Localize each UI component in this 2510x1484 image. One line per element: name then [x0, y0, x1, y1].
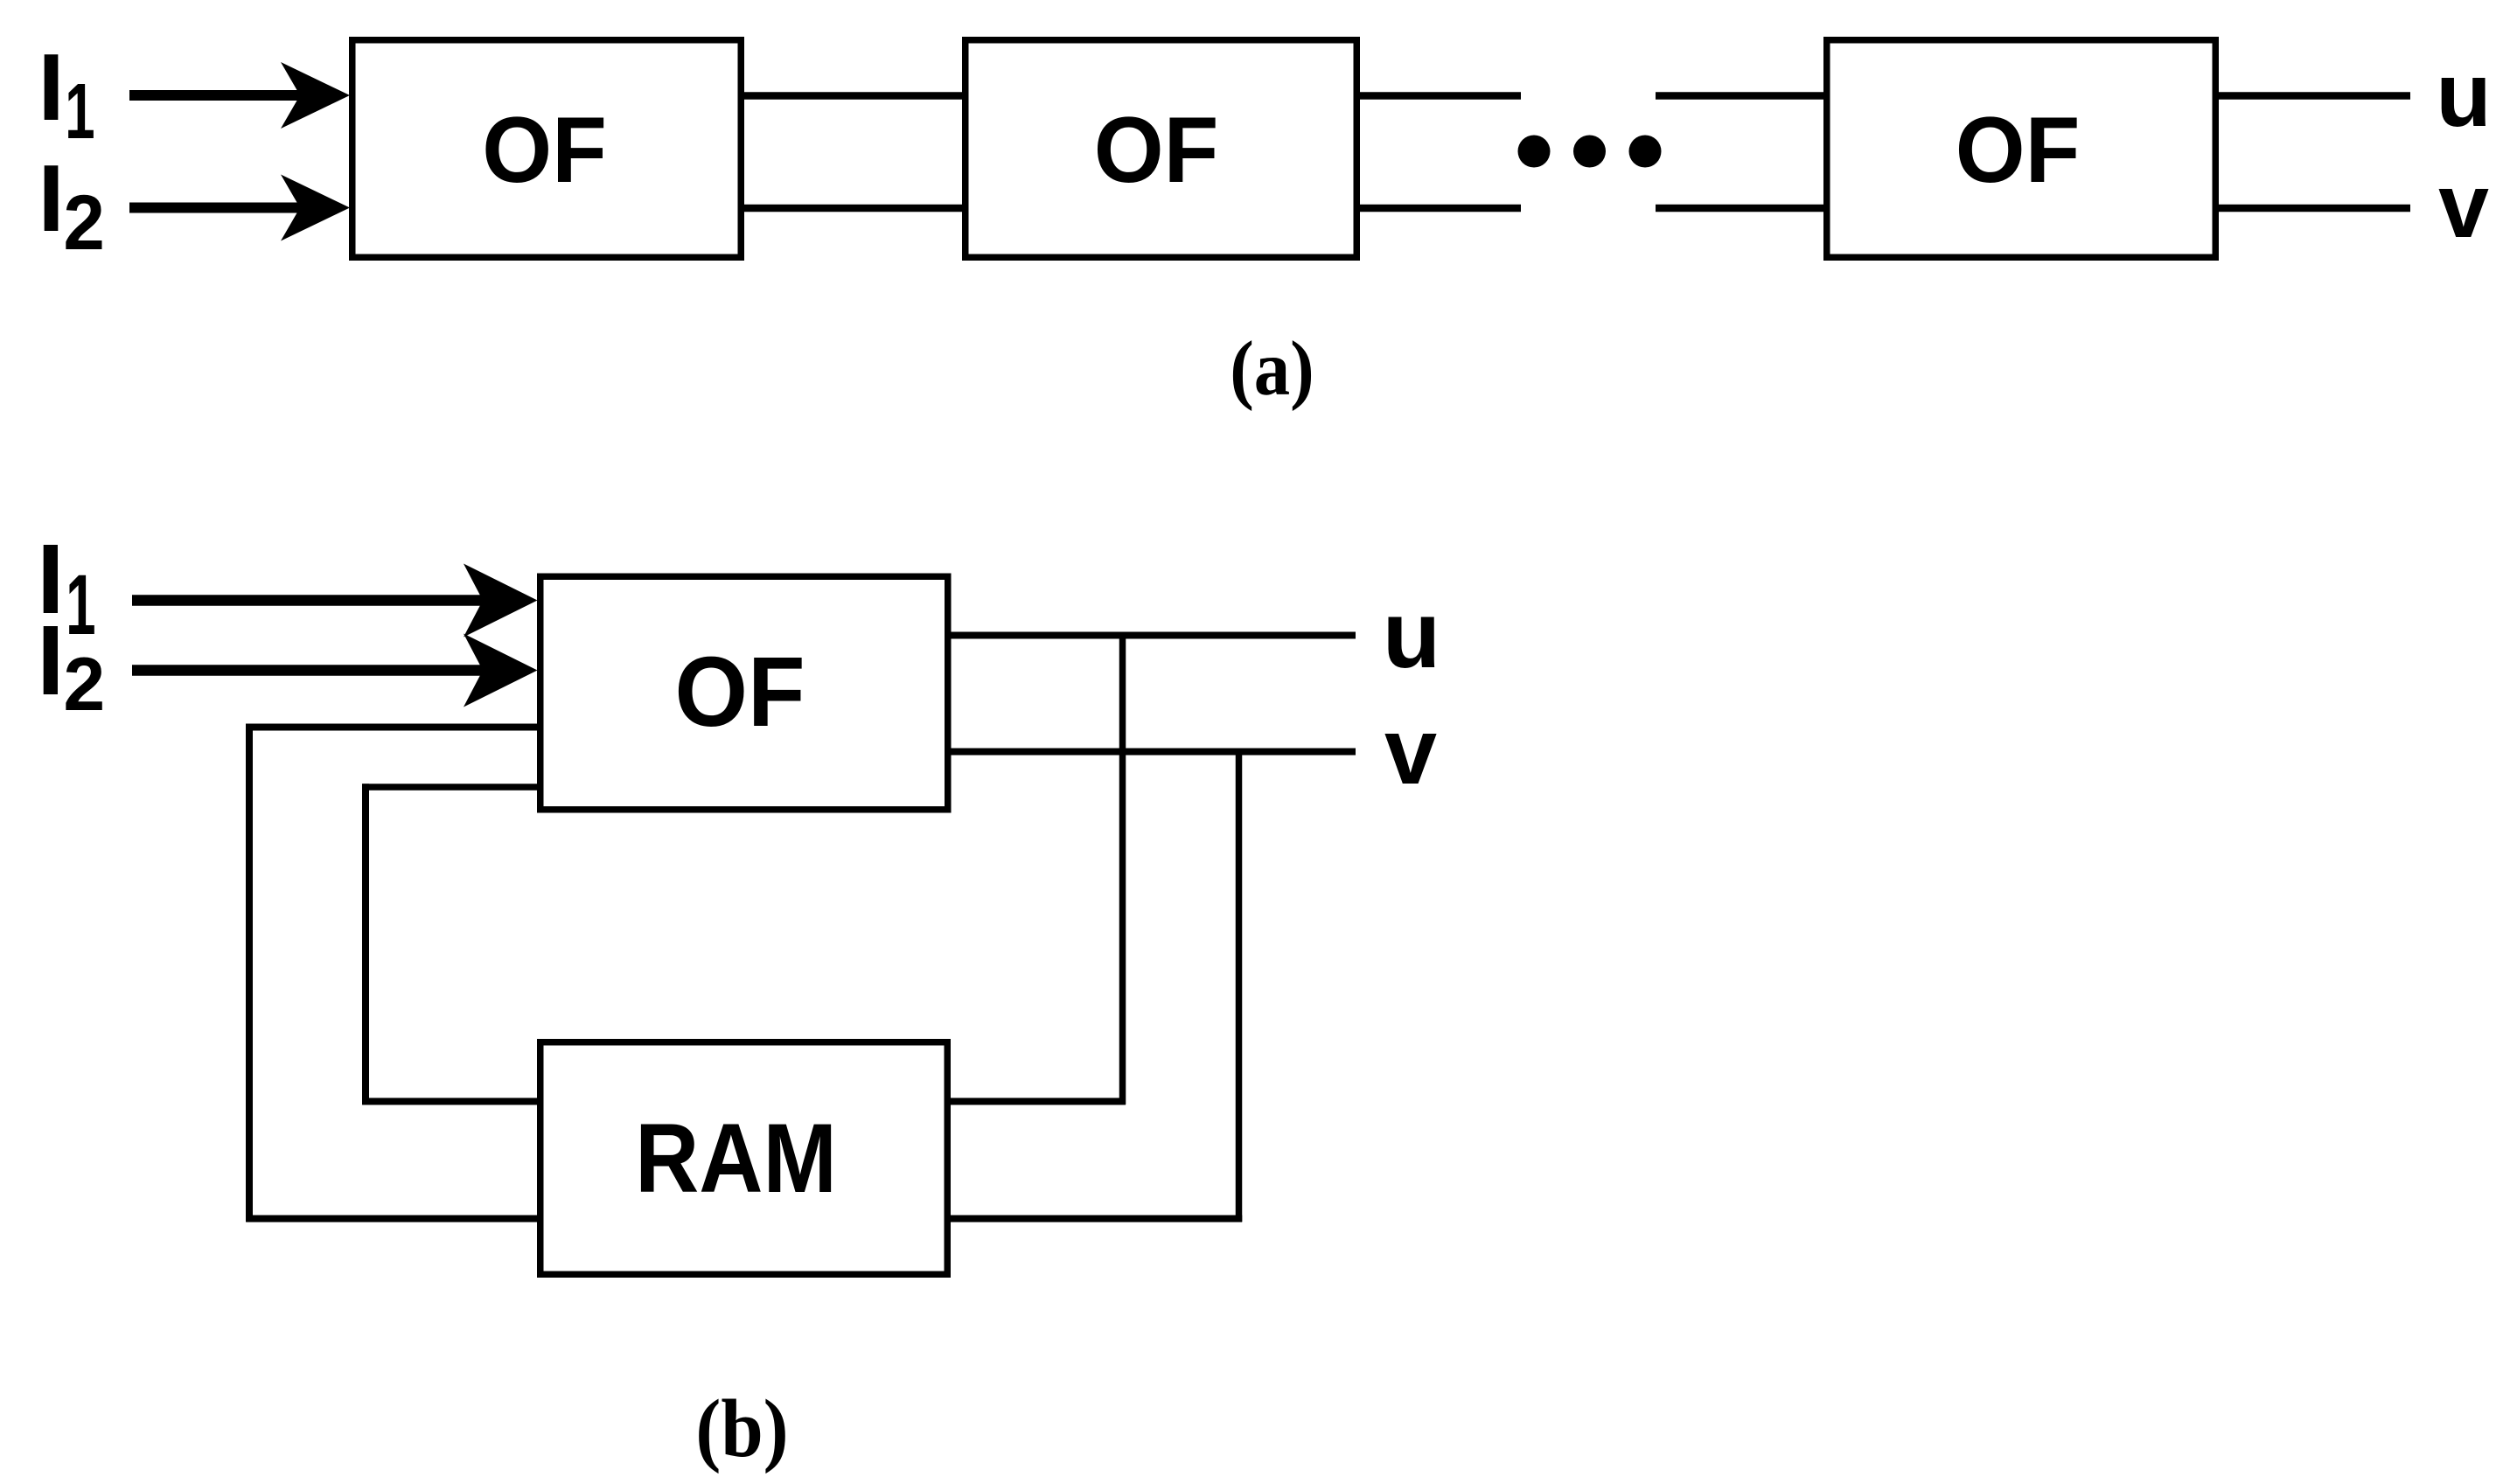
svg-text:OF: OF [674, 637, 805, 747]
wire u feedback horizontal into RAM right [945, 1098, 1126, 1105]
svg-text:v: v [1384, 698, 1437, 804]
wire OF1 to OF2 top [741, 92, 966, 100]
caption (b) [695, 1383, 788, 1474]
svg-text:(b): (b) [695, 1383, 788, 1474]
svg-text:RAM: RAM [635, 1103, 837, 1213]
wire into OF3 top segment [1656, 92, 1827, 100]
wire v feedback vertical branch [1236, 749, 1243, 1223]
block RAM (b) [540, 1042, 948, 1275]
wire OF2 right top segment [1357, 92, 1521, 100]
svg-text:OF: OF [1094, 98, 1219, 202]
svg-text:v: v [2438, 156, 2489, 257]
svg-text:1: 1 [65, 68, 94, 156]
svg-text:u: u [1383, 582, 1441, 688]
svg-text:(a): (a) [1230, 324, 1314, 411]
wire OF2 right bottom segment [1357, 205, 1521, 212]
block OF (b) [540, 576, 948, 810]
input label I2 (b) [37, 605, 105, 727]
svg-text:2: 2 [63, 179, 105, 266]
svg-text:OF: OF [1956, 98, 2081, 202]
input label I1 (b) [37, 524, 96, 652]
wire u feedback vertical branch [1119, 632, 1126, 1105]
wire output u (b) [945, 632, 1356, 639]
svg-text:OF: OF [482, 98, 607, 202]
svg-text:I: I [38, 145, 64, 252]
input label I2 (a) [38, 145, 105, 266]
input arrow I2 into OF (b) [132, 634, 538, 707]
wire OF1 to OF2 bottom [741, 205, 966, 212]
input label I1 (a) [38, 34, 94, 156]
wire into OF3 bottom segment [1656, 205, 1827, 212]
svg-text:u: u [2436, 45, 2492, 146]
input arrow I1 into OF1 [129, 62, 350, 129]
wire inner feedback horizontal into OF left [362, 784, 540, 791]
input arrow I1 into OF (b) [132, 564, 538, 637]
wire v feedback horizontal into RAM right [945, 1216, 1242, 1223]
wire inner feedback bottom horizontal into RAM left [362, 1098, 540, 1105]
block OF3 (a) [1827, 40, 2216, 258]
wire inner feedback vertical [362, 784, 369, 1104]
caption (a) [1230, 324, 1314, 411]
svg-text:2: 2 [63, 643, 105, 727]
input arrow I2 into OF1 [129, 175, 350, 241]
wire outer feedback vertical [246, 724, 253, 1223]
wire outer feedback horizontal into OF left [246, 724, 540, 731]
ellipsis dots [1518, 136, 1662, 168]
wire outer feedback bottom horizontal into RAM left [246, 1216, 540, 1223]
wire output u (a) [2216, 92, 2410, 100]
block OF1 (a) [352, 40, 742, 258]
svg-text:1: 1 [66, 558, 95, 653]
svg-text:I: I [37, 605, 64, 715]
svg-text:I: I [38, 34, 64, 141]
wire output v (a) [2216, 205, 2410, 212]
wire output v (b) [945, 749, 1356, 756]
block OF2 (a) [966, 40, 1357, 258]
